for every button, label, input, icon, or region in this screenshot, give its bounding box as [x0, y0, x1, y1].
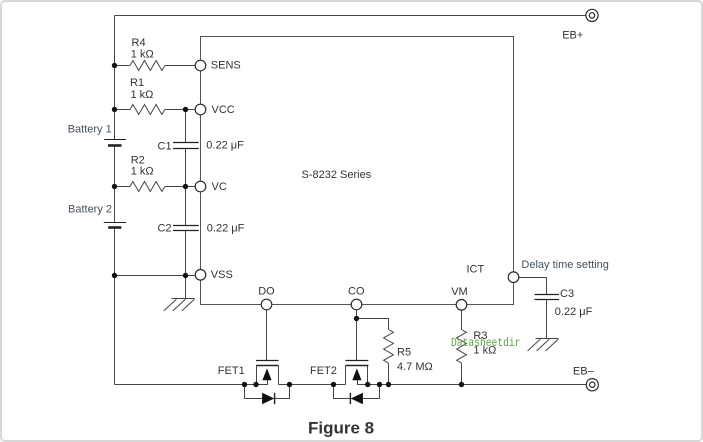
svg-text:4.7 MΩ: 4.7 MΩ: [397, 361, 433, 373]
svg-text:0.22 μF: 0.22 μF: [207, 223, 245, 235]
svg-text:EB+: EB+: [562, 30, 583, 42]
svg-text:VCC: VCC: [212, 104, 235, 116]
svg-text:Datasheetdir: Datasheetdir: [451, 336, 521, 350]
svg-text:C1: C1: [158, 140, 172, 152]
svg-text:C2: C2: [158, 223, 172, 235]
svg-text:CO: CO: [348, 285, 365, 297]
svg-text:Figure 8: Figure 8: [308, 418, 374, 437]
svg-text:VC: VC: [212, 181, 227, 193]
svg-text:Battery 1: Battery 1: [68, 123, 112, 135]
svg-text:C3: C3: [560, 288, 574, 300]
svg-text:0.22 μF: 0.22 μF: [555, 306, 593, 318]
svg-text:VSS: VSS: [211, 269, 233, 281]
svg-text:VM: VM: [451, 286, 468, 298]
svg-text:FET1: FET1: [218, 365, 245, 377]
svg-text:S-8232 Series: S-8232 Series: [302, 169, 372, 181]
svg-text:FET2: FET2: [310, 365, 337, 377]
svg-text:R4: R4: [132, 37, 146, 49]
svg-text:R5: R5: [397, 347, 411, 359]
svg-text:Delay time setting: Delay time setting: [521, 259, 608, 271]
svg-text:R1: R1: [130, 77, 144, 89]
svg-text:1 kΩ: 1 kΩ: [131, 166, 154, 178]
svg-text:1 kΩ: 1 kΩ: [131, 89, 154, 101]
svg-text:EB–: EB–: [573, 366, 595, 378]
svg-text:Battery 2: Battery 2: [68, 203, 112, 215]
svg-text:1 kΩ: 1 kΩ: [131, 49, 154, 61]
svg-text:ICT: ICT: [467, 263, 485, 275]
svg-text:0.22 μF: 0.22 μF: [206, 140, 244, 152]
svg-text:DO: DO: [258, 285, 275, 297]
svg-text:SENS: SENS: [211, 59, 241, 71]
